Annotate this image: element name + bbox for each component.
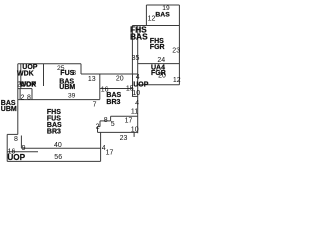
svg-text:23: 23	[172, 47, 180, 54]
wall: fgr-block right	[178, 26, 180, 85]
svg-text:8: 8	[27, 94, 31, 101]
wall: notch v2	[99, 121, 101, 127]
wall: box28 left	[19, 89, 21, 100]
svg-text:UBM: UBM	[59, 84, 75, 91]
wall: notch v3	[97, 127, 99, 133]
svg-text:11: 11	[131, 106, 139, 115]
svg-text:WDK: WDK	[17, 71, 34, 78]
wall: porch step top	[7, 133, 18, 135]
svg-text:BR3: BR3	[106, 99, 120, 106]
wall: strip10 left	[132, 74, 134, 96]
svg-text:7: 7	[93, 101, 97, 108]
svg-text:BAS: BAS	[155, 12, 170, 19]
svg-text:4: 4	[136, 74, 140, 81]
wall: ua4 bottom	[138, 84, 180, 86]
svg-text:10: 10	[132, 90, 140, 97]
svg-text:20: 20	[158, 73, 166, 80]
svg-text:8: 8	[14, 136, 18, 143]
wall: bas-top-box left	[145, 5, 147, 26]
wall: line 11-17	[111, 115, 138, 117]
svg-text:2: 2	[96, 123, 100, 130]
wall: fhs-strip left	[131, 26, 133, 75]
wall: box28 right	[31, 89, 33, 100]
wall: line 16 vertical	[99, 74, 101, 99]
wall: strip10 bottom tick	[132, 95, 138, 97]
svg-text:13: 13	[88, 76, 96, 83]
wall: bas-top-box bottom	[132, 25, 179, 27]
svg-text:9: 9	[22, 145, 26, 152]
svg-text:8: 8	[104, 117, 108, 124]
svg-text:12: 12	[173, 77, 181, 84]
wall: bas-top-box right	[178, 5, 180, 26]
wall: uop inner left	[20, 64, 22, 89]
wall: uop-wdk top	[18, 63, 81, 65]
svg-text:UBM: UBM	[1, 106, 17, 113]
svg-text:35: 35	[132, 55, 140, 62]
wall: fgr-block left	[137, 26, 139, 134]
svg-text:12: 12	[148, 16, 156, 23]
svg-text:17: 17	[125, 117, 133, 124]
svg-text:23: 23	[120, 135, 128, 142]
wall: tick below 23-line	[133, 132, 135, 137]
svg-text:2: 2	[21, 94, 25, 101]
wall: line 39 bottom	[18, 99, 100, 101]
svg-text:UOP: UOP	[21, 82, 37, 89]
svg-text:FGR: FGR	[150, 44, 165, 51]
svg-text:UOP: UOP	[133, 81, 149, 88]
svg-text:8: 8	[72, 70, 76, 77]
wall: porch inner top	[7, 151, 38, 153]
svg-text:20: 20	[116, 75, 124, 82]
wall: bas-br3 top	[100, 88, 133, 90]
wall: line 8	[100, 120, 111, 122]
wall: line 23	[98, 131, 138, 133]
wall: porch left edge	[6, 134, 8, 161]
wall: uop-wdk right	[43, 64, 45, 86]
svg-text:10: 10	[131, 127, 139, 134]
svg-text:40: 40	[54, 142, 62, 149]
svg-text:56: 56	[54, 154, 62, 161]
wall: bottom right edge	[100, 132, 102, 161]
svg-text:UOP: UOP	[7, 153, 25, 162]
svg-text:24: 24	[157, 57, 165, 64]
svg-text:BR3: BR3	[47, 128, 61, 135]
wall: step right of fus	[80, 64, 82, 74]
wall: line 56 bottom	[7, 160, 100, 162]
wall: notch jog	[98, 126, 101, 128]
wall: box28 top	[18, 88, 32, 90]
wall: fgr-ua4 divider	[138, 63, 180, 65]
svg-text:39: 39	[68, 92, 76, 99]
wall: line 40	[21, 147, 100, 149]
wall: step x21	[20, 136, 22, 149]
wall: bas-top-box top	[146, 4, 179, 6]
wall: line 13-20	[81, 73, 138, 75]
wall: notch v1	[110, 116, 112, 121]
wall: main left edge	[17, 64, 19, 135]
svg-text:5: 5	[111, 121, 115, 128]
svg-text:17: 17	[106, 149, 114, 156]
svg-text:BAS: BAS	[130, 32, 148, 42]
